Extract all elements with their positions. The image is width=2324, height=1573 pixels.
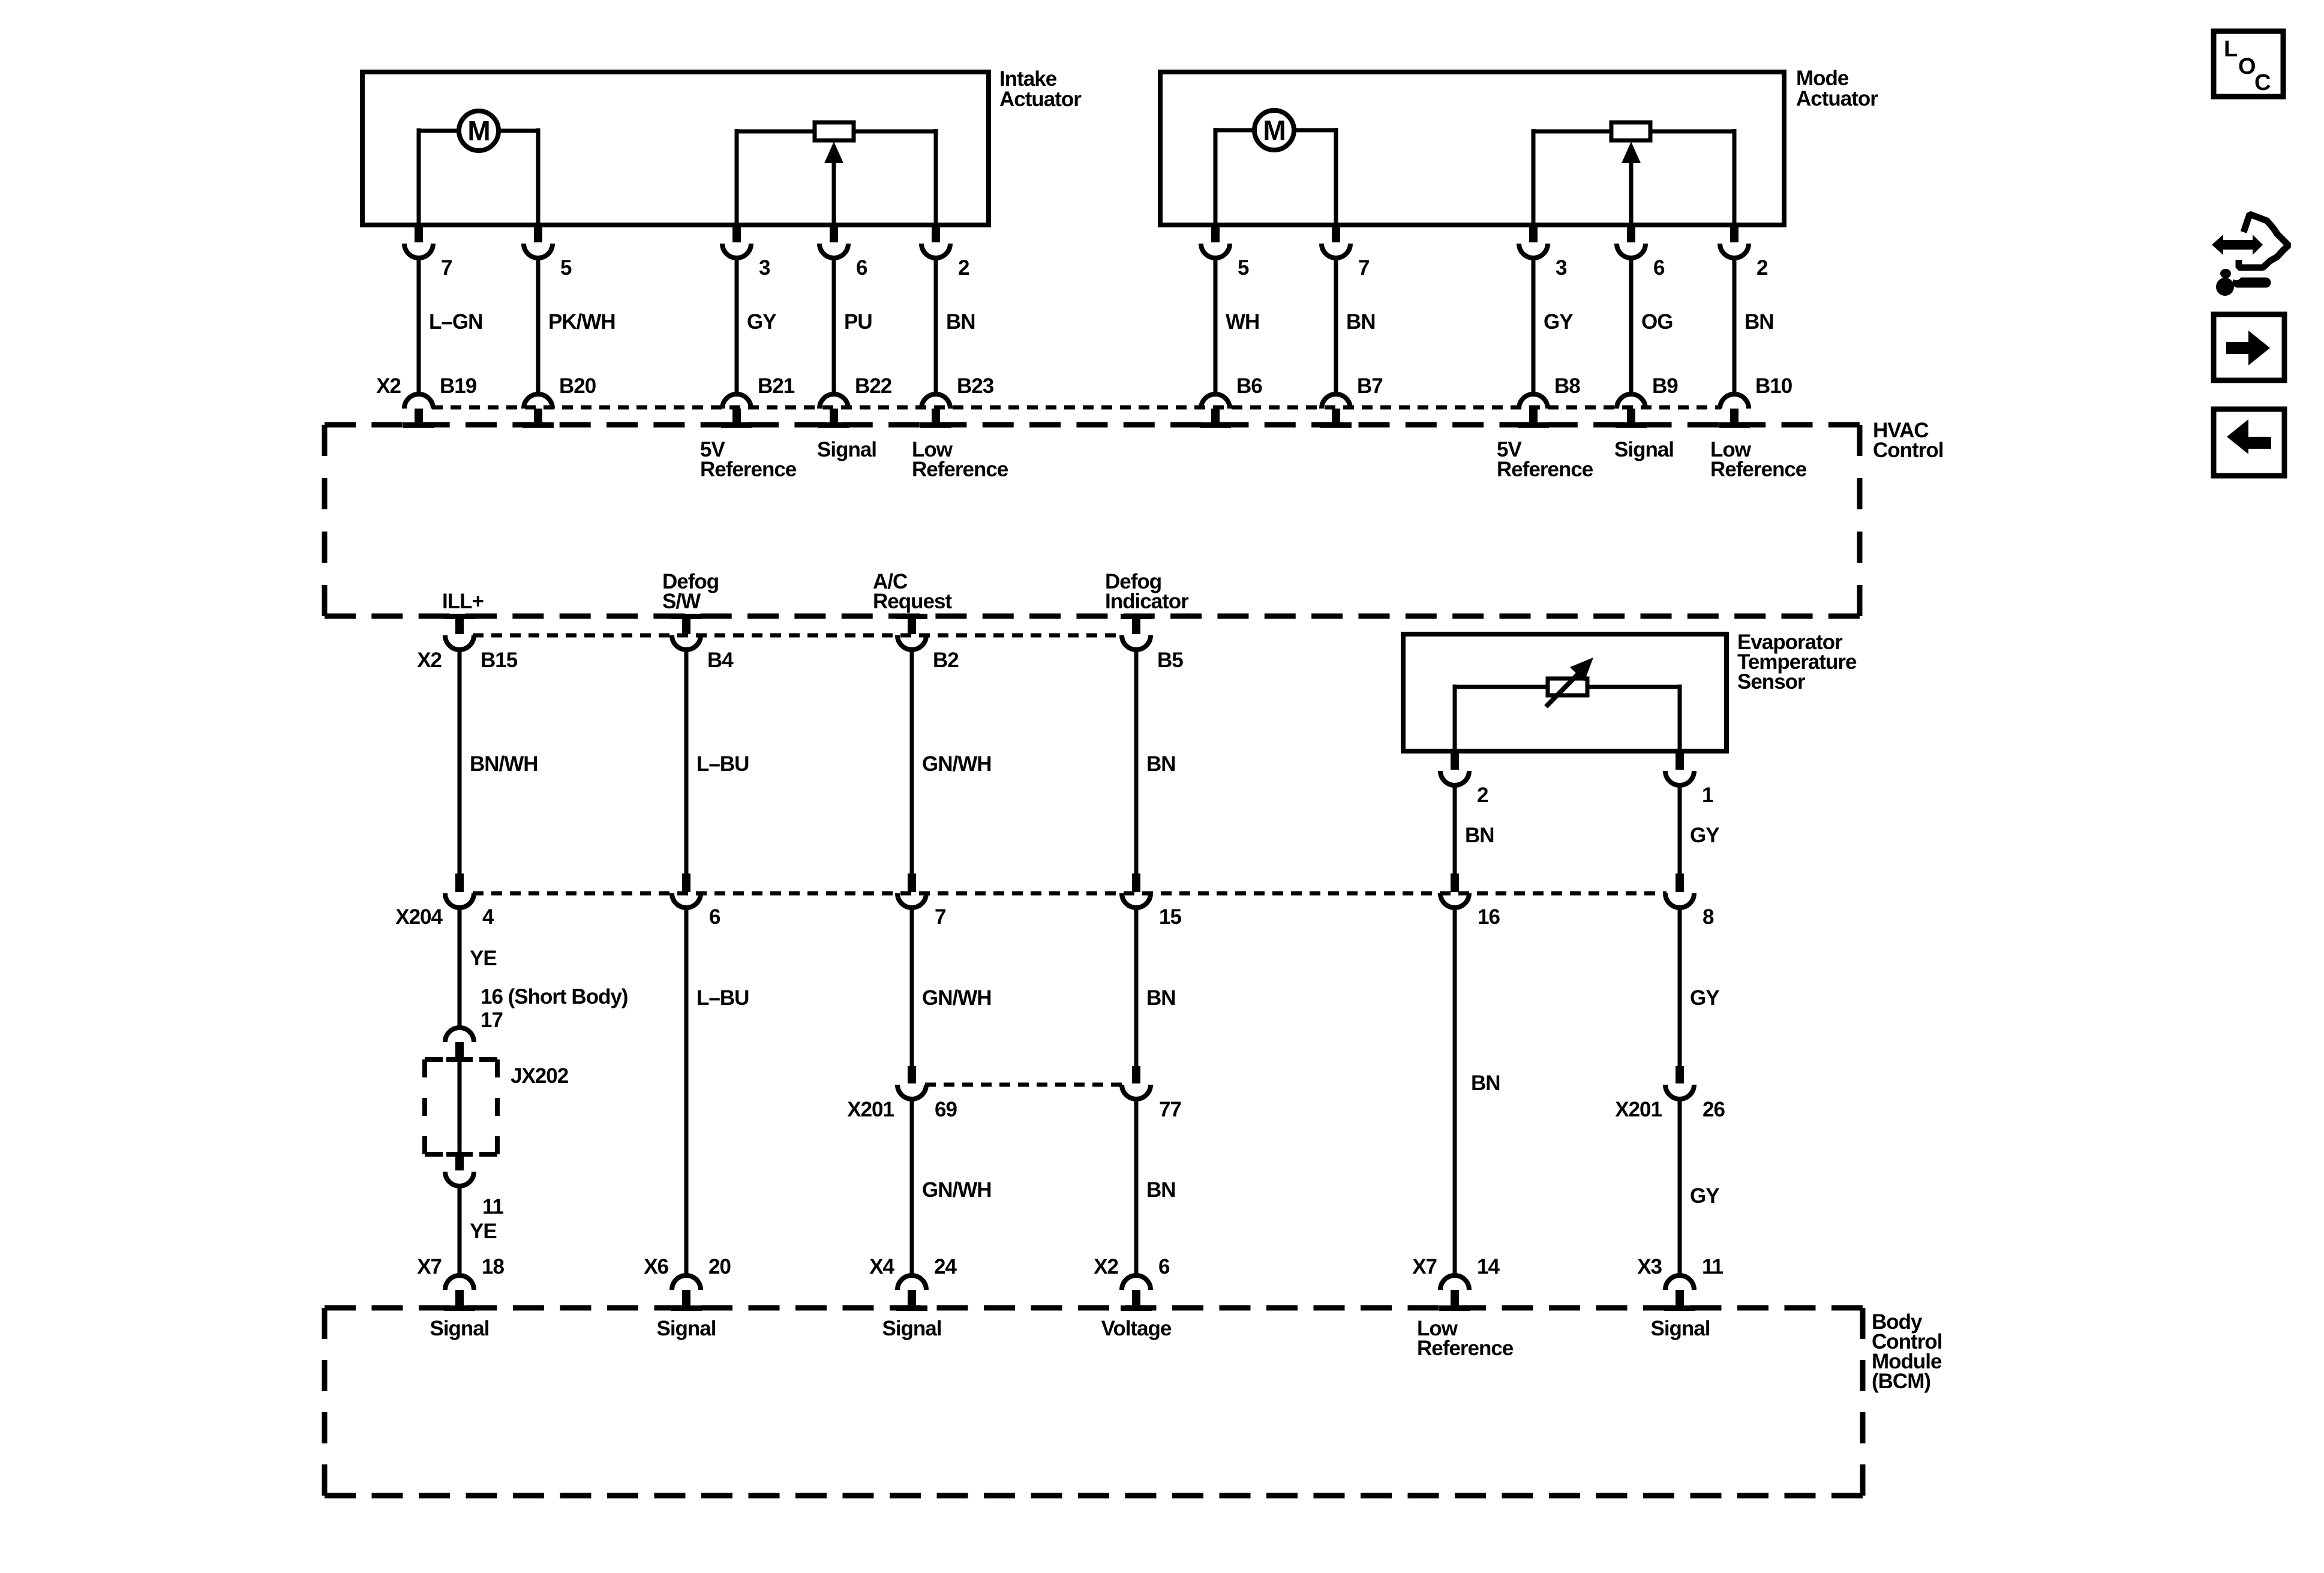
- evaporator temperature sensor box: [1403, 634, 1727, 751]
- svg-text:16: 16: [1478, 905, 1500, 929]
- connector X204 cavity 16: [1440, 873, 1500, 929]
- svg-text:B9: B9: [1652, 374, 1678, 398]
- svg-text:Signal: Signal: [1614, 438, 1674, 461]
- svg-text:GY: GY: [747, 310, 776, 334]
- svg-text:X2: X2: [417, 649, 442, 672]
- svg-text:B22: B22: [855, 374, 892, 398]
- svg-text:Voltage: Voltage: [1101, 1317, 1172, 1340]
- svg-text:17: 17: [481, 1008, 503, 1032]
- LOC reference box: [2214, 31, 2283, 97]
- svg-text:L–BU: L–BU: [696, 986, 749, 1010]
- wire pot right to pin2 leg: [854, 129, 936, 225]
- wire BN (evap pin2 to X204): [1455, 784, 1494, 873]
- svg-text:ILL+: ILL+: [442, 590, 484, 613]
- svg-text:11: 11: [482, 1195, 504, 1218]
- connector terminal B19 at HVAC control: [403, 374, 477, 428]
- intake actuator box: [362, 72, 989, 225]
- diagnostic icon wrench: [2216, 269, 2266, 296]
- connector X2 cavity 6 at BCM: [1094, 1255, 1170, 1311]
- connector X204 cavity 6: [672, 873, 720, 929]
- wire thermistor left leg: [1455, 685, 1548, 751]
- label Low Reference (mode): [1710, 438, 1807, 481]
- svg-text:O: O: [2238, 54, 2256, 79]
- wiper arrow (intake pot): [824, 142, 843, 225]
- connector terminal B7 at HVAC control: [1320, 374, 1383, 428]
- svg-text:BN: BN: [1744, 310, 1774, 334]
- wire GY (evap pin1 to X204): [1680, 784, 1719, 873]
- connector pin 7 at x=2227 (actuator output): [1322, 225, 1369, 280]
- wire YE (JX202 to BCM X7-18): [460, 1185, 497, 1275]
- svg-text:3: 3: [759, 256, 770, 280]
- svg-text:Signal: Signal: [430, 1317, 489, 1340]
- svg-text:Reference: Reference: [700, 458, 797, 481]
- svg-text:B23: B23: [957, 374, 994, 398]
- svg-text:2: 2: [958, 256, 969, 280]
- svg-text:16 (Short Body): 16 (Short Body): [481, 985, 628, 1008]
- wire pot left to pin3 leg (mode): [1533, 129, 1611, 225]
- connector X204 cavity 7: [897, 873, 945, 929]
- svg-text:2: 2: [1756, 256, 1768, 280]
- svg-text:GN/WH: GN/WH: [922, 752, 992, 776]
- wire YE (X204-4 to JX202): [460, 906, 497, 1028]
- connector X204 cavity 4: [445, 873, 494, 929]
- svg-text:24: 24: [934, 1255, 957, 1278]
- svg-text:8: 8: [1703, 905, 1714, 929]
- connector terminal B20 at HVAC control: [523, 374, 596, 428]
- wire GN/WH (HVAC to X204): [912, 649, 992, 873]
- svg-text:26: 26: [1703, 1098, 1725, 1121]
- svg-text:Sensor: Sensor: [1737, 670, 1806, 694]
- svg-text:PK/WH: PK/WH: [548, 310, 615, 334]
- svg-text:6: 6: [709, 905, 720, 929]
- wire L-BU (X204-6 to BCM X6-20): [686, 906, 749, 1275]
- connector pin 2 at x=1560 (actuator output): [921, 225, 969, 280]
- svg-text:BN: BN: [1146, 1178, 1176, 1202]
- thermistor body (evap sensor): [1548, 679, 1587, 695]
- connector terminal B15 at HVAC bottom: [444, 614, 518, 672]
- svg-text:M: M: [467, 115, 490, 146]
- label Voltage (BCM X2-6): [1101, 1317, 1172, 1340]
- label Intake Actuator: [999, 67, 1082, 111]
- svg-text:BN: BN: [1146, 752, 1176, 776]
- wire BN (pin to HVAC control): [1336, 257, 1376, 394]
- connector pin 2 (evap sensor): [1440, 751, 1488, 807]
- connector pin 5 at x=897 (actuator output): [524, 225, 572, 280]
- wire pot left to pin3 leg: [737, 129, 815, 225]
- svg-text:YE: YE: [470, 1220, 497, 1243]
- connector X204 cavity 15: [1122, 873, 1181, 929]
- svg-text:3: 3: [1556, 256, 1567, 280]
- svg-text:L–BU: L–BU: [696, 752, 749, 776]
- svg-text:OG: OG: [1641, 310, 1673, 334]
- svg-text:B6: B6: [1236, 374, 1262, 398]
- wire BN (X201-77 to BCM X2-6): [1136, 1098, 1176, 1275]
- svg-text:GY: GY: [1544, 310, 1573, 334]
- label HVAC Control: [1873, 419, 1943, 462]
- wire BN (pin to HVAC control): [936, 257, 975, 394]
- label Signal (BCM X7-18): [430, 1317, 489, 1340]
- connector X6 cavity 20 at BCM: [644, 1255, 731, 1311]
- wire BN/WH (HVAC to X204): [460, 649, 538, 873]
- svg-text:6: 6: [1158, 1255, 1170, 1278]
- connector terminal B21 at HVAC control: [721, 374, 795, 428]
- svg-text:X2: X2: [1094, 1255, 1118, 1278]
- svg-text:YE: YE: [470, 947, 497, 970]
- wire GY (X204-8 to X201-26): [1680, 906, 1719, 1066]
- svg-text:X4: X4: [869, 1255, 894, 1278]
- potentiometer body (mode): [1611, 122, 1650, 140]
- svg-text:X204: X204: [395, 905, 443, 929]
- svg-text:7: 7: [1358, 256, 1369, 280]
- svg-text:GY: GY: [1690, 986, 1719, 1010]
- wiper arrow (mode pot): [1622, 142, 1641, 225]
- svg-text:5: 5: [1238, 256, 1249, 280]
- svg-text:18: 18: [482, 1255, 504, 1278]
- dotted connector line X2 row: [432, 406, 1721, 410]
- connector pin 3 at x=1228 (actuator output): [722, 225, 770, 280]
- svg-text:GN/WH: GN/WH: [922, 986, 992, 1010]
- potentiometer body (intake): [815, 122, 854, 140]
- svg-text:B19: B19: [440, 374, 477, 398]
- svg-text:Reference: Reference: [1710, 458, 1807, 481]
- label 17: [481, 1008, 503, 1032]
- connector terminal B4 at HVAC bottom: [671, 614, 734, 672]
- label ILL+: [442, 590, 484, 613]
- svg-text:2: 2: [1477, 784, 1488, 807]
- svg-text:Actuator: Actuator: [999, 88, 1082, 111]
- wire BN (HVAC to X204): [1136, 649, 1176, 873]
- connector pin 6 at x=1390 (actuator output): [819, 225, 867, 280]
- back arrow box: [2214, 409, 2284, 476]
- label A/C Request: [873, 570, 952, 613]
- label 5V Reference (intake): [700, 438, 797, 481]
- svg-text:Signal: Signal: [656, 1317, 716, 1340]
- diagnostic icon component outline: [2239, 214, 2289, 268]
- svg-text:BN: BN: [1146, 986, 1176, 1010]
- label 16 (Short Body): [481, 985, 628, 1008]
- label Signal (BCM X4-24): [882, 1317, 941, 1340]
- label Signal (mode pot): [1614, 438, 1674, 461]
- svg-text:B15: B15: [481, 649, 518, 672]
- connector X7 cavity 18 at BCM: [417, 1255, 504, 1311]
- mode actuator box: [1160, 72, 1784, 225]
- connector terminal B8 at HVAC control: [1518, 374, 1580, 428]
- wire motor right to pin7 leg (mode): [1294, 128, 1336, 225]
- svg-text:WH: WH: [1226, 310, 1259, 334]
- svg-text:4: 4: [482, 905, 494, 929]
- connector terminal B6 at HVAC control: [1200, 374, 1262, 428]
- dotted connector line X201 row: [925, 1083, 1123, 1087]
- connector terminal B23 at HVAC control: [920, 374, 994, 428]
- connector terminal B10 at HVAC control: [1719, 374, 1792, 428]
- wire motor left to pin7 leg: [419, 128, 459, 225]
- dotted connector line X204 row: [473, 891, 1667, 896]
- svg-text:Request: Request: [873, 590, 952, 613]
- label 5V Reference (mode): [1497, 438, 1593, 481]
- svg-text:Signal: Signal: [1650, 1317, 1710, 1340]
- svg-text:6: 6: [1653, 256, 1665, 280]
- motor M (mode actuator): [1254, 110, 1294, 150]
- wire OG (pin to HVAC control): [1631, 257, 1673, 394]
- svg-text:BN: BN: [1465, 824, 1494, 847]
- svg-text:B7: B7: [1357, 374, 1383, 398]
- svg-text:14: 14: [1477, 1255, 1500, 1278]
- wire GY (pin to HVAC control): [1533, 257, 1573, 394]
- connector X201 cavity 77: [1122, 1066, 1181, 1121]
- svg-text:B8: B8: [1554, 374, 1580, 398]
- wire inside JX202: [458, 1061, 462, 1154]
- connector terminal B5 at HVAC bottom: [1121, 614, 1183, 672]
- connector terminal B2 at HVAC bottom: [896, 614, 959, 672]
- svg-text:BN/WH: BN/WH: [470, 752, 538, 776]
- label Body Control Module (BCM): [1872, 1310, 1942, 1393]
- wire GY (X201-26 to BCM X3-11): [1680, 1098, 1719, 1275]
- wire L-BU (HVAC to X204): [686, 649, 749, 873]
- label JX202: [511, 1064, 569, 1088]
- svg-text:5: 5: [560, 256, 572, 280]
- svg-text:GN/WH: GN/WH: [922, 1178, 992, 1202]
- svg-text:6: 6: [856, 256, 867, 280]
- svg-text:77: 77: [1159, 1098, 1181, 1121]
- wire motor right to pin5 leg: [499, 128, 538, 225]
- connector cavity 11 at JX202: [445, 1154, 504, 1218]
- connector pin 6 at x=2719 (actuator output): [1617, 225, 1665, 280]
- svg-text:S/W: S/W: [662, 590, 701, 613]
- svg-text:Reference: Reference: [912, 458, 1008, 481]
- svg-text:M: M: [1263, 115, 1285, 146]
- svg-text:B21: B21: [758, 374, 795, 398]
- svg-text:X3: X3: [1637, 1255, 1662, 1278]
- wire PK/WH (pin to HVAC control): [538, 257, 615, 394]
- svg-text:L: L: [2224, 37, 2238, 62]
- svg-text:Control: Control: [1873, 439, 1943, 462]
- svg-text:Indicator: Indicator: [1105, 590, 1189, 613]
- label Defog S/W: [662, 570, 719, 613]
- connector id X204: [395, 905, 443, 929]
- svg-text:PU: PU: [844, 310, 872, 334]
- wire PU (pin to HVAC control): [834, 257, 872, 394]
- svg-text:1: 1: [1702, 784, 1713, 807]
- connector X3 cavity 11 at BCM: [1637, 1255, 1723, 1311]
- connector cavity 17 at JX202: [445, 1028, 474, 1061]
- connector X7 cavity 14 at BCM: [1412, 1255, 1500, 1311]
- label Signal (BCM X3-11): [1650, 1317, 1710, 1340]
- wire GN/WH (X204-7 to X201-69): [912, 906, 992, 1066]
- svg-text:(BCM): (BCM): [1872, 1370, 1930, 1393]
- dotted connector line X2 lower row: [473, 634, 1123, 638]
- label Evaporator Temperature Sensor: [1737, 631, 1857, 694]
- connector pin 3 at x=2556 (actuator output): [1519, 225, 1567, 280]
- svg-text:Reference: Reference: [1497, 458, 1593, 481]
- wire GN/WH (X201-69 to BCM X4-24): [912, 1098, 992, 1275]
- wire BN (pin to HVAC control): [1734, 257, 1774, 394]
- svg-text:BN: BN: [1471, 1071, 1500, 1095]
- connector id X2 (HVAC upper row): [376, 374, 401, 398]
- svg-text:7: 7: [441, 256, 452, 280]
- label Signal (intake pot): [817, 438, 876, 461]
- svg-text:B5: B5: [1157, 649, 1183, 672]
- svg-text:B4: B4: [707, 649, 734, 672]
- diagnostic icon double arrow: [2212, 235, 2263, 255]
- svg-text:X7: X7: [417, 1255, 442, 1278]
- svg-text:69: 69: [935, 1098, 957, 1121]
- svg-text:X7: X7: [1412, 1255, 1437, 1278]
- body control module dashed box: [325, 1308, 1863, 1496]
- connector id X201 (right): [1615, 1098, 1662, 1121]
- connector X201 cavity 69: [897, 1066, 957, 1121]
- wire motor left to pin5 leg (mode): [1215, 128, 1254, 225]
- svg-text:X201: X201: [847, 1098, 894, 1121]
- svg-text:20: 20: [708, 1255, 731, 1278]
- svg-text:BN: BN: [946, 310, 975, 334]
- svg-text:X6: X6: [644, 1255, 668, 1278]
- splice pack JX202 dashed box: [425, 1057, 497, 1157]
- wire WH (pin to HVAC control): [1215, 257, 1259, 394]
- svg-text:B10: B10: [1755, 374, 1792, 398]
- connector X201 cavity 26: [1665, 1066, 1725, 1121]
- svg-text:X2: X2: [376, 374, 401, 398]
- thermistor diagonal arrow: [1546, 658, 1593, 707]
- svg-text:L–GN: L–GN: [429, 310, 482, 334]
- motor M (intake actuator): [459, 111, 499, 151]
- wire thermistor right leg: [1587, 685, 1680, 751]
- svg-text:C: C: [2254, 70, 2271, 95]
- label Defog Indicator: [1105, 570, 1189, 613]
- connector terminal B22 at HVAC control: [818, 374, 892, 428]
- forward arrow box: [2214, 314, 2284, 380]
- connector pin 5 at x=2026 (actuator output): [1201, 225, 1249, 280]
- connector pin 2 at x=2891 (actuator output): [1720, 225, 1768, 280]
- svg-text:Reference: Reference: [1417, 1337, 1514, 1360]
- svg-text:X201: X201: [1615, 1098, 1662, 1121]
- wire L-GN (pin to HVAC control): [419, 257, 482, 394]
- label Mode Actuator: [1796, 67, 1878, 110]
- label Low Reference (BCM X7-14): [1417, 1317, 1514, 1360]
- connector terminal B9 at HVAC control: [1616, 374, 1678, 428]
- svg-text:Actuator: Actuator: [1796, 87, 1878, 110]
- wire BN (X204-15 to X201-77): [1136, 906, 1176, 1066]
- svg-text:GY: GY: [1690, 824, 1719, 847]
- connector id X201 (left): [847, 1098, 894, 1121]
- svg-text:15: 15: [1159, 905, 1181, 929]
- svg-text:GY: GY: [1690, 1184, 1719, 1208]
- svg-text:JX202: JX202: [511, 1064, 569, 1088]
- HVAC control module dashed box: [325, 425, 1860, 616]
- wire pot right to pin2 leg (mode): [1650, 129, 1734, 225]
- svg-text:Signal: Signal: [817, 438, 876, 461]
- connector X4 cavity 24 at BCM: [869, 1255, 957, 1311]
- svg-text:7: 7: [935, 905, 945, 929]
- label Low Reference (intake): [912, 438, 1008, 481]
- connector X204 cavity 8: [1665, 873, 1714, 929]
- wire BN (X204-16 to BCM X7-14): [1455, 906, 1500, 1275]
- svg-text:BN: BN: [1346, 310, 1376, 334]
- svg-text:11: 11: [1702, 1255, 1724, 1278]
- svg-text:B20: B20: [559, 374, 596, 398]
- connector pin 1 (evap sensor): [1665, 751, 1713, 807]
- svg-text:B2: B2: [933, 649, 959, 672]
- connector pin 7 at x=698 (actuator output): [404, 225, 452, 280]
- connector id X2 (HVAC lower row): [417, 649, 442, 672]
- svg-text:Signal: Signal: [882, 1317, 941, 1340]
- wire GY (pin to HVAC control): [737, 257, 776, 394]
- label Signal (BCM X6-20): [656, 1317, 716, 1340]
